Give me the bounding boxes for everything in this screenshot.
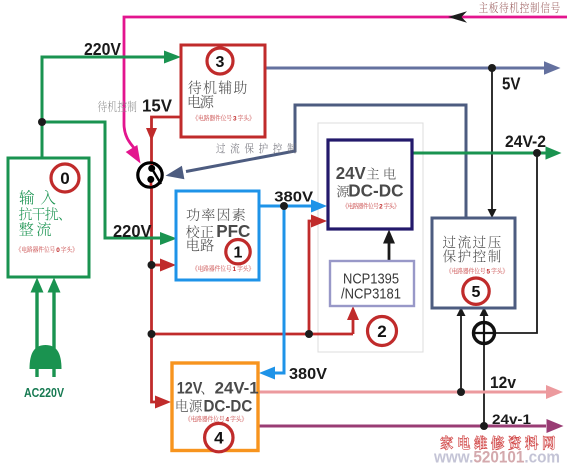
svg-text:AC220V: AC220V	[24, 386, 65, 400]
svg-text:2: 2	[379, 204, 383, 211]
svg-text:3: 3	[216, 54, 225, 71]
svg-text:380V: 380V	[289, 366, 328, 383]
svg-text:24V-2: 24V-2	[505, 133, 546, 151]
svg-text:380V: 380V	[274, 189, 313, 206]
svg-text:3: 3	[233, 116, 237, 123]
svg-text:DC-DC: DC-DC	[204, 396, 253, 415]
svg-text:0: 0	[56, 247, 60, 254]
svg-text:0: 0	[60, 169, 69, 188]
svg-text:1: 1	[234, 245, 243, 262]
svg-text:PFC: PFC	[216, 221, 251, 241]
svg-text:220V: 220V	[84, 39, 121, 59]
svg-text:1: 1	[233, 266, 237, 273]
svg-text:/NCP3181: /NCP3181	[341, 286, 401, 302]
svg-text:2: 2	[377, 322, 386, 341]
svg-text:www.520101.com: www.520101.com	[433, 448, 560, 465]
svg-text:12v: 12v	[490, 374, 517, 392]
svg-text:24v-1: 24v-1	[492, 411, 531, 427]
svg-text:DC-DC: DC-DC	[348, 180, 404, 200]
svg-text:5V: 5V	[502, 74, 521, 94]
svg-text:4: 4	[226, 417, 230, 424]
svg-text:5: 5	[472, 284, 481, 301]
svg-text:220V: 220V	[113, 221, 152, 241]
svg-text:24V-1: 24V-1	[215, 379, 259, 398]
svg-text:12V: 12V	[177, 379, 203, 398]
svg-text:5: 5	[487, 269, 491, 276]
svg-text:15V: 15V	[142, 95, 172, 115]
svg-text:4: 4	[214, 429, 224, 448]
svg-text:NCP1395: NCP1395	[343, 271, 399, 287]
